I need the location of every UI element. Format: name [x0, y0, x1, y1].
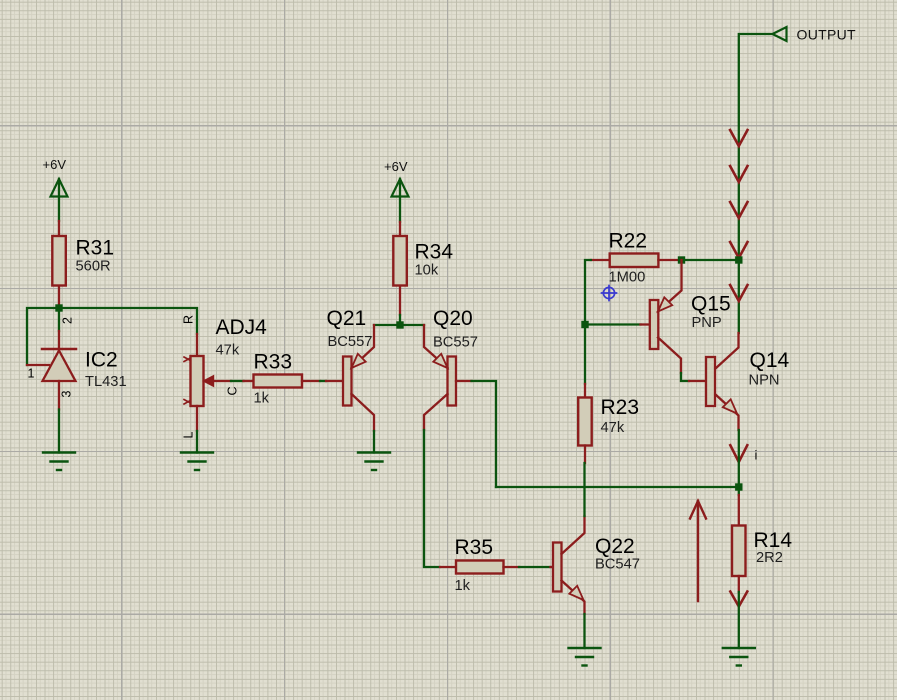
- wire Q15 collector to Q14 base: [681, 373, 689, 381]
- ground under IC2: [43, 453, 75, 471]
- terminal OUTPUT: [773, 27, 856, 43]
- svg-text:BC557: BC557: [433, 335, 478, 351]
- wire node C to Q15 base: [585, 323, 641, 325]
- wire R22 left corner down to R23: [585, 260, 591, 384]
- current chevron 4: [730, 242, 747, 258]
- current chevron 5: [730, 285, 747, 301]
- wire pot wiper to R33: [231, 380, 244, 382]
- emitter with arrow: [716, 395, 739, 431]
- wire node A down to IC2 pin2: [58, 308, 60, 331]
- transistor Q14 NPN: [689, 333, 790, 430]
- svg-text:R31: R31: [76, 237, 115, 260]
- op-amp U1 : IC2 TL431 shunt regulator: [27, 317, 127, 410]
- resistor R34 10k: [393, 222, 453, 315]
- svg-text:i: i: [755, 448, 758, 463]
- wire OUTPUT to main rail: [739, 34, 773, 333]
- pin 1: [27, 364, 49, 366]
- base pin: [456, 380, 472, 382]
- power +6V left: [43, 157, 68, 221]
- svg-text:560R: 560R: [76, 259, 111, 275]
- collector: [658, 338, 681, 374]
- node D junction (R22 right / Q15 emitter): [678, 256, 685, 263]
- ground under ADJ4: [181, 453, 213, 471]
- wire node A right to pot ADJ4: [59, 308, 197, 334]
- svg-text:1k: 1k: [254, 391, 270, 407]
- wire Q22 emitter to ground: [583, 614, 585, 648]
- collector: [716, 333, 739, 369]
- emitter with arrow: [352, 325, 375, 368]
- node A junction: [55, 304, 62, 311]
- origin marker: [602, 286, 617, 301]
- collector: [424, 394, 448, 430]
- svg-text:R: R: [182, 315, 196, 324]
- collector: [562, 516, 585, 554]
- resistor R33 1k: [244, 351, 321, 407]
- transistor Q15 PNP: [641, 260, 731, 373]
- node C junction (Q15 base node): [581, 321, 588, 328]
- wire Q21 collector to ground: [373, 431, 375, 453]
- transistor Q21 BC557 PNP: [326, 307, 374, 431]
- svg-text:2R2: 2R2: [756, 550, 783, 566]
- svg-text:R35: R35: [455, 536, 494, 559]
- current chevron 1: [730, 130, 747, 146]
- node F junction: [735, 483, 742, 490]
- pin 2: [58, 331, 60, 349]
- wire emitter rail of Q21/Q20: [374, 324, 424, 326]
- svg-text:R14: R14: [754, 529, 793, 552]
- svg-text:+6V: +6V: [43, 157, 67, 172]
- svg-text:R33: R33: [254, 351, 293, 374]
- resistor R22 1M00: [591, 230, 680, 286]
- potentiometer ADJ4 47k: [182, 315, 268, 439]
- wire IC2 pin3 to ground: [58, 410, 60, 453]
- pin 3: [58, 381, 60, 410]
- transistor Q22 BC547 NPN: [551, 516, 640, 614]
- svg-text:+6V: +6V: [384, 159, 408, 174]
- wire R33 to Q21 base: [320, 380, 326, 382]
- svg-text:Q14: Q14: [750, 349, 790, 372]
- svg-text:47k: 47k: [601, 420, 625, 436]
- transistor Q20 BC557 PNP: [424, 307, 478, 430]
- wire pot bottom to ground: [196, 431, 198, 453]
- wire node A to TL431 ref loop: [27, 308, 59, 365]
- wire Q14 emitter to node F: [738, 430, 740, 487]
- wire Q20 collector down to R35: [424, 430, 440, 567]
- svg-text:Q15: Q15: [691, 293, 731, 316]
- ground under Q21: [358, 453, 390, 471]
- ground under Q22: [569, 648, 601, 666]
- current chevron 3: [730, 202, 747, 218]
- pin R top: [196, 334, 198, 356]
- svg-text:1M00: 1M00: [609, 270, 646, 286]
- emitter with arrow: [562, 581, 585, 615]
- svg-text:IC2: IC2: [85, 349, 118, 372]
- current chevron below R14: [730, 592, 747, 607]
- svg-text:10k: 10k: [415, 263, 439, 279]
- emitter with arrow: [424, 325, 448, 368]
- resistor R35 1k: [440, 536, 519, 594]
- cathode bar: [42, 348, 76, 351]
- node E junction (main rail at R22): [735, 256, 742, 263]
- wire feedback rail: [496, 486, 739, 488]
- current chevron i: [730, 445, 747, 462]
- current probe arrow: [690, 501, 706, 601]
- wiper arrow: [204, 376, 214, 386]
- svg-text:Q21: Q21: [327, 307, 367, 330]
- ground under R14: [723, 648, 755, 666]
- svg-text:Q20: Q20: [433, 307, 473, 330]
- pin L bottom: [196, 406, 198, 431]
- track end marks: [184, 357, 190, 362]
- collector: [352, 394, 375, 431]
- svg-text:3: 3: [60, 391, 74, 398]
- node B junction: [396, 321, 403, 328]
- svg-text:R23: R23: [601, 396, 640, 419]
- svg-text:R34: R34: [415, 241, 454, 264]
- svg-text:47k: 47k: [216, 343, 240, 359]
- emitter with arrow: [658, 260, 682, 312]
- svg-text:Q22: Q22: [595, 535, 635, 558]
- power +6V middle: [384, 159, 409, 222]
- svg-text:TL431: TL431: [85, 374, 127, 390]
- svg-text:1k: 1k: [455, 578, 471, 594]
- svg-text:OUTPUT: OUTPUT: [797, 27, 856, 43]
- wire R22 right to main rail: [680, 259, 739, 261]
- svg-text:NPN: NPN: [749, 373, 780, 389]
- svg-text:PNP: PNP: [692, 315, 722, 331]
- resistor R14 2R2: [732, 487, 792, 592]
- svg-text:R22: R22: [609, 230, 648, 253]
- wire R14 to ground: [738, 592, 740, 648]
- wire R23 bottom to Q22 collector: [583, 463, 585, 516]
- svg-text:L: L: [182, 432, 196, 439]
- resistor R23 47k: [578, 384, 639, 463]
- triangle body: [43, 351, 76, 382]
- svg-text:BC557: BC557: [328, 334, 373, 350]
- wire Q20 base right and down: [472, 381, 497, 487]
- current chevron 2: [730, 166, 747, 182]
- wire R35 to Q22 base: [519, 566, 551, 568]
- svg-text:ADJ4: ADJ4: [216, 316, 268, 339]
- resistor R31: [52, 221, 114, 306]
- svg-text:2: 2: [61, 317, 75, 324]
- wire R34 bottom to node B: [399, 315, 401, 325]
- svg-text:C: C: [226, 386, 240, 395]
- svg-text:1: 1: [28, 367, 35, 381]
- svg-text:BC547: BC547: [595, 557, 640, 573]
